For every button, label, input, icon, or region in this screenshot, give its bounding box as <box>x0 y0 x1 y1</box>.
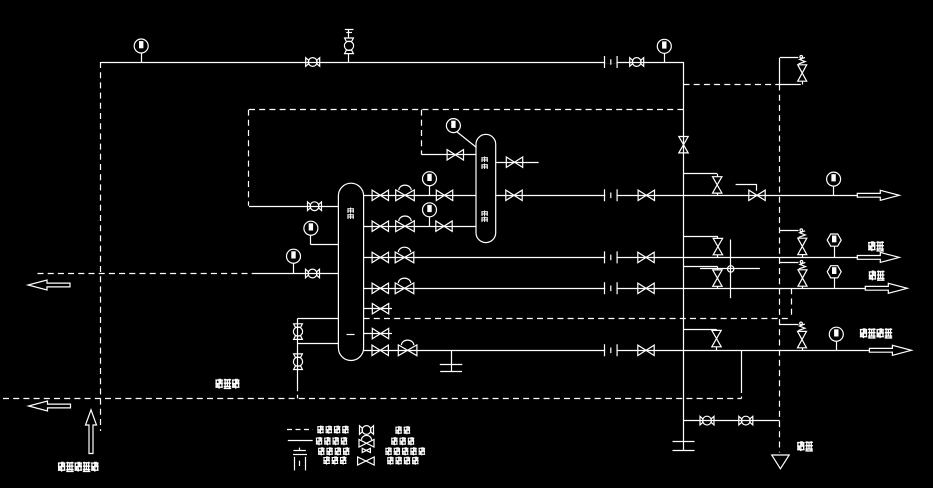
safety relief valve qubeihuan <box>798 322 807 348</box>
regulator valve nanxian <box>395 278 414 294</box>
safety relief valve top right <box>798 56 807 82</box>
wire row2 y=226.2 manifold to filter <box>364 226 476 228</box>
wire dashed vertical x=421.8 <box>421 110 423 153</box>
wire impulse line vertical x=730.7 <box>730 240 732 299</box>
gate valve stub row e <box>372 304 388 314</box>
orifice fitting symbol <box>728 266 734 272</box>
ball valve on inlet y=206 <box>308 202 322 211</box>
gate valve minyong a <box>372 252 388 262</box>
valve on main header (vertical gate valve) <box>679 137 688 153</box>
gate valve row1 a <box>372 190 388 200</box>
outlet arrow nanxian <box>865 283 907 293</box>
ball valve on west inlet <box>306 269 320 278</box>
west arrow on west inlet <box>28 280 70 290</box>
wire impulse line horizontal y=268.9 <box>700 268 760 270</box>
instrument PI-1 on top line <box>134 39 148 53</box>
safety relief valve minyong <box>798 229 807 255</box>
insulating joint / earth at header bottom <box>673 441 695 443</box>
wire north ring buried line y=398.4 <box>3 398 742 400</box>
gate valve row1 main x=757 <box>749 190 765 200</box>
legend label regulator valve <box>391 437 398 445</box>
wire row1 filter to header to outlet arrow <box>496 195 858 197</box>
legend label plate gate valve <box>387 457 394 465</box>
wire minyong bypass stub <box>684 236 718 238</box>
control valve row2 <box>396 216 415 232</box>
instrument PI-3 above filter <box>446 119 460 133</box>
wire buried dashed line y=318.5 <box>364 318 792 320</box>
earth connection on qubeihuan row <box>451 350 453 371</box>
wire row1 bypass stub from header <box>684 173 718 175</box>
gate valve nanxian b <box>638 283 654 293</box>
vessel T2 filter separator (capsule) <box>476 134 496 242</box>
vent outlet triangle <box>772 455 790 469</box>
legend dashed line sample <box>287 429 313 431</box>
legend label safety earthing <box>318 447 325 455</box>
vessel T1 gas manifold (capsule) <box>338 183 363 360</box>
gate valve stub row f <box>372 328 388 338</box>
instrument PI-2 on top line <box>657 39 671 53</box>
instrument PI-6 row1 <box>423 172 437 186</box>
instrument PI-5 on west inlet <box>287 249 301 263</box>
instrument PI-8 row2 <box>423 203 437 217</box>
label nanxian <box>869 271 877 281</box>
wire nanxian bypass stub <box>684 266 718 268</box>
gate valve qubeihuan a <box>372 345 388 355</box>
label beihuanxian <box>215 379 223 389</box>
buried riser valve with T-handle on top line <box>344 38 353 54</box>
legend safety shutoff sample <box>362 448 370 452</box>
legend label buried pipeline <box>317 426 324 434</box>
legend label overhead pipeline <box>316 437 323 445</box>
gate valve on filter top feed <box>447 150 463 160</box>
wire relief branch qubeihuan <box>780 324 799 326</box>
wire nanxian row y=288.3 <box>364 288 866 290</box>
insulating joint row1 <box>605 189 618 201</box>
wire dashed branch header to relief x <box>684 84 780 86</box>
wire blowdown line y=420.6 <box>684 420 780 422</box>
wire qubeihuan row y=350.3 <box>364 350 870 352</box>
gate valve minyong b <box>638 252 654 262</box>
wire dashed bypass top edge y=109.6 <box>249 109 684 111</box>
ball valve blowdown b <box>739 416 753 425</box>
west arrow on north ring <box>29 401 71 411</box>
gate valve row2 a <box>372 221 388 231</box>
control valve row1 <box>396 185 415 201</box>
wire qubeihuan bypass stub <box>684 329 717 331</box>
instrument PI-9 minyong <box>827 234 841 246</box>
label zhongshiyou-jinqi <box>58 462 66 472</box>
wire drain lower y=343.2 <box>298 343 339 345</box>
insulating joint on top line <box>605 56 618 68</box>
bypass valve nanxian <box>713 270 722 286</box>
gate valve row2 b <box>436 221 452 231</box>
wire main header vertical x=683.5 <box>683 62 685 451</box>
insulating joint qubeihuan <box>605 344 618 356</box>
legend label orifice valve <box>323 456 330 464</box>
bypass valve row1 (vertical) <box>713 177 722 193</box>
label fangsan (vent) <box>797 441 805 451</box>
wire nanxian buried link x=791.7 <box>791 288 793 318</box>
bypass valve minyong <box>713 238 722 254</box>
vessel T2 tag glyphs <box>481 157 488 163</box>
ball valve blowdown a <box>700 416 714 425</box>
wire stub row y=308.7 <box>364 308 392 310</box>
legend regulator sample <box>359 440 374 448</box>
regulator valve qubeihuan <box>398 340 417 356</box>
wire relief loop <box>779 58 781 85</box>
instrument PI-4 tap on manifold vessel <box>304 221 318 235</box>
wire row1 y=195.3 manifold to filter <box>364 195 476 197</box>
wire inlet line y=206.2 to manifold vessel <box>249 206 338 208</box>
gate valve nanxian a <box>372 283 388 293</box>
outlet arrow row1 <box>857 190 899 200</box>
bypass valve qubeihuan <box>712 330 721 346</box>
legend gate valve sample <box>358 457 375 465</box>
legend earth symbol <box>299 448 301 451</box>
wire west inlet solid y=272.9 <box>255 273 338 275</box>
wire relief branch nanxian <box>780 262 799 264</box>
label qubeihuanxian <box>860 328 868 338</box>
wire filter outlet stub y=162.2 <box>496 162 539 164</box>
gate valve row1 c <box>506 190 522 200</box>
wire dashed relief header x=779.7 <box>779 85 781 453</box>
wire link qubeihuan to north ring x=741.6 <box>741 350 743 389</box>
instrument PI-7 row1 right <box>827 172 841 186</box>
ball valve on top line x=637 <box>630 58 644 67</box>
instrument PI-10 nanxian <box>827 266 841 278</box>
legend label safety shutoff valve <box>385 447 392 455</box>
wire drain upper y=318.3 <box>298 318 339 320</box>
safety relief valve nanxian <box>798 261 807 287</box>
wire drain vertical x=297.8 <box>297 318 299 387</box>
gate valve row1 d <box>638 190 654 200</box>
legend ball valve sample <box>360 426 374 435</box>
regulator valve minyong <box>395 247 414 263</box>
wire dashed vertical x=101 (west tie-in) <box>100 62 102 431</box>
gate valve on filter stub <box>506 157 522 167</box>
wire west inlet dashed y=272.9 <box>38 273 256 275</box>
legend solid line sample <box>288 440 313 442</box>
gate valve row1 b <box>436 190 452 200</box>
vessel T1 level mark <box>347 334 355 336</box>
outlet arrow qubeihuan <box>869 345 911 355</box>
outlet arrow minyong <box>857 252 899 262</box>
wire relief branch minyong <box>780 230 799 232</box>
vessel T1 tag glyph <box>347 208 354 214</box>
drain ball valve lower <box>293 354 302 370</box>
wire dashed vertical x=249 <box>248 110 250 206</box>
wire top supply line <box>101 62 684 64</box>
drain ball valve upper <box>293 324 302 340</box>
inlet up arrow (PetroChina supply) <box>86 410 97 454</box>
gate valve qubeihuan b <box>638 345 654 355</box>
wire feed to filter vessel top y=154.8 <box>421 153 423 155</box>
insulating joint nanxian <box>605 282 618 294</box>
insulating joint minyong <box>605 251 618 263</box>
wire stub row y=333.6 <box>364 333 392 335</box>
wire lock stub on row1 main valve <box>736 184 757 186</box>
label minyong <box>868 241 876 251</box>
instrument PI-11 qubeihuan <box>829 327 843 341</box>
ball valve on top line x=313 <box>306 58 320 67</box>
wire minyong row y=257.4 <box>364 257 858 259</box>
legend label ball valve <box>395 426 402 434</box>
